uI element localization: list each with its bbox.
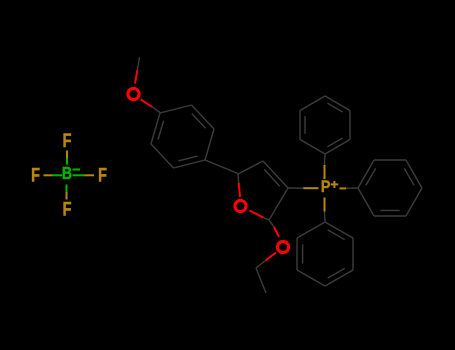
phenyl bottom edge 5 bbox=[325, 222, 353, 238]
phenyl bottom edge 4 bbox=[352, 238, 354, 270]
furan inner double C4=C3 bbox=[264, 169, 280, 186]
phenyl bottom edge 1 bbox=[296, 238, 298, 270]
phenyl top edge 0 bbox=[300, 140, 325, 155]
benzene edge C4-C5 bbox=[174, 160, 206, 168]
phenyl bottom edge 0 bbox=[297, 222, 325, 238]
bond B-F bottom, B half bbox=[66, 185, 68, 193]
bond P-phenylRight, C half bbox=[346, 187, 358, 189]
benzene edge C2-C3 bbox=[192, 105, 215, 129]
phenyl right edge 0 bbox=[358, 188, 374, 216]
furan bond O1-C5, C half bbox=[237, 174, 240, 183]
bond OEt-CH2, O half bbox=[266, 253, 277, 261]
phenyl right inner double 1 bbox=[380, 209, 399, 211]
bond P-phenylTop, P half bbox=[324, 165, 326, 179]
phenyl right edge 2 bbox=[406, 188, 422, 216]
bond C2-OEt, C half bbox=[269, 220, 274, 227]
phenyl right edge 4 bbox=[374, 159, 406, 161]
bond O-C1 aryl, C half bbox=[152, 107, 160, 113]
atom label O methoxy bbox=[128, 88, 139, 99]
phenyl top edge 3 bbox=[325, 96, 350, 111]
furan bond C5-C4 bbox=[238, 161, 263, 174]
phenyl top inner double 3 bbox=[327, 103, 342, 112]
atom label O ethoxy bbox=[277, 241, 288, 252]
svg-text:F: F bbox=[62, 130, 71, 151]
bond B-F top, F half bbox=[66, 151, 68, 159]
phenyl bottom edge 2 bbox=[297, 270, 325, 286]
svg-text:F: F bbox=[62, 199, 71, 220]
bond CH3-O methyl half bbox=[137, 57, 139, 70]
bond P-phenylBottom, P half bbox=[324, 198, 326, 212]
bond C4aryl-C5furan bbox=[205, 160, 238, 174]
furan bond C4-C3 bbox=[263, 161, 288, 188]
phenyl top edge 5 bbox=[325, 140, 350, 155]
phenyl top edge 2 bbox=[300, 96, 325, 111]
phenyl right inner double 3 bbox=[404, 168, 414, 185]
bond P-phenylRight, P half bbox=[340, 187, 347, 189]
bond B-F left, B half bbox=[52, 174, 62, 176]
benzene edge C6-C1 bbox=[151, 113, 160, 144]
bond B-F left, F half bbox=[44, 174, 53, 176]
bond CH3-O, O half bbox=[135, 70, 137, 84]
svg-text:P: P bbox=[321, 178, 331, 196]
phenyl bottom inner double 1 bbox=[302, 244, 304, 263]
charge plus on P bbox=[331, 181, 339, 188]
bond B-F top, B half bbox=[66, 158, 68, 165]
benzene inner double C2-C3 bbox=[192, 114, 206, 129]
furan bond O1-C5, O half bbox=[239, 183, 240, 197]
bond C3-P, C half bbox=[288, 187, 303, 189]
bond OEt-CH2, C half bbox=[256, 261, 266, 268]
benzene inner double C4-C5 bbox=[178, 156, 197, 161]
phenyl right edge 5 bbox=[358, 160, 374, 188]
phenyl right inner double 5 bbox=[366, 168, 376, 185]
bond P-phenylTop, C half bbox=[324, 154, 327, 165]
bond C3-P, P half bbox=[303, 187, 318, 189]
atom label O furan bbox=[235, 200, 246, 211]
svg-text:B: B bbox=[62, 164, 73, 184]
phenyl top edge 1 bbox=[299, 111, 301, 140]
benzene edge C5-C6 bbox=[151, 144, 174, 168]
benzene edge C3-C4 bbox=[205, 129, 214, 160]
phenyl top edge 4 bbox=[349, 111, 351, 140]
bond C2-OEt, O half bbox=[274, 227, 279, 237]
benzene inner double C6-C1 bbox=[158, 121, 164, 140]
charge minus on B bbox=[73, 169, 81, 171]
benzene edge C1-C2 bbox=[160, 105, 192, 113]
furan bond C3-C2 bbox=[269, 188, 288, 220]
phenyl top inner double 5 bbox=[327, 138, 342, 147]
furan bond O1-C2, O half bbox=[250, 211, 264, 218]
bond CH2-CH3 ethyl bbox=[256, 268, 266, 293]
svg-text:F: F bbox=[98, 165, 107, 186]
furan bond O1-C2, C half bbox=[264, 218, 270, 220]
bond O-C1 aryl, O half bbox=[141, 100, 152, 107]
phenyl right edge 1 bbox=[374, 215, 406, 217]
phenyl bottom inner double 3 bbox=[328, 268, 345, 278]
phenyl top inner double 1 bbox=[304, 116, 306, 134]
bond B-F right, F half bbox=[85, 174, 95, 176]
phenyl bottom edge 3 bbox=[325, 270, 353, 286]
svg-text:F: F bbox=[31, 165, 40, 186]
bond B-F bottom, F half bbox=[66, 192, 68, 200]
phenyl bottom inner double 5 bbox=[328, 230, 345, 240]
bond P-phenylBottom, C half bbox=[324, 212, 327, 223]
bond B-F right, B half bbox=[73, 174, 85, 176]
phenyl right edge 3 bbox=[406, 160, 422, 188]
